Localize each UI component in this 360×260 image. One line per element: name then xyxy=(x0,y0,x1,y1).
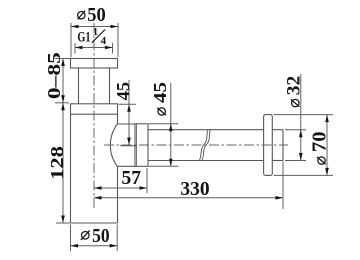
dim 0-85 line xyxy=(62,59,64,103)
svg-text:128: 128 xyxy=(47,146,67,180)
label d70 xyxy=(309,132,331,165)
centerlines xyxy=(94,23,288,210)
svg-text:330: 330 xyxy=(180,179,209,200)
vertical centerline xyxy=(93,23,95,210)
dim d50 top xyxy=(71,26,118,28)
dim 57 line xyxy=(94,187,147,189)
svg-text:45: 45 xyxy=(113,82,133,101)
label d50 bottom xyxy=(81,230,90,240)
d50 bottom arrows xyxy=(71,244,79,248)
dim G1 1/4 xyxy=(75,47,113,49)
horizontal pipe xyxy=(148,129,264,131)
svg-text:G1: G1 xyxy=(77,30,90,46)
pipe break squiggle xyxy=(199,130,208,161)
dim d70 line xyxy=(326,115,328,176)
d50 top arrows xyxy=(71,25,79,29)
pipe end cap xyxy=(282,130,284,161)
arrowheads xyxy=(61,25,329,248)
dim d50 bottom xyxy=(71,245,118,247)
svg-text:50: 50 xyxy=(92,226,110,247)
330 arrows xyxy=(94,196,102,200)
d70 arrows xyxy=(325,115,329,123)
wall flange xyxy=(264,115,273,176)
128 arrows xyxy=(61,103,65,111)
label d32 xyxy=(284,76,305,107)
neck tube xyxy=(78,68,80,104)
label d50 top xyxy=(78,11,85,20)
45 arrows xyxy=(127,104,131,112)
svg-text:4: 4 xyxy=(101,35,107,47)
cup body xyxy=(70,114,72,223)
d32 arrows xyxy=(299,130,303,138)
cup collar xyxy=(71,104,118,114)
d45 arrows xyxy=(169,124,173,132)
svg-text:50: 50 xyxy=(87,4,106,26)
svg-text:45: 45 xyxy=(150,82,170,103)
horizontal pipe centerline xyxy=(104,144,288,146)
dim d45 line xyxy=(170,83,172,166)
label 128 xyxy=(47,146,67,180)
G arrows xyxy=(75,46,83,50)
dim 330 line xyxy=(94,197,283,199)
svg-text:0–85: 0–85 xyxy=(44,52,64,99)
0-85 arrows xyxy=(61,59,65,67)
svg-text:32: 32 xyxy=(284,76,305,96)
dim d32 line xyxy=(300,74,302,161)
dim 128 line xyxy=(62,103,64,223)
label 0-85 xyxy=(44,52,64,99)
outlet tube band xyxy=(117,123,135,125)
outlet nut ring xyxy=(135,124,148,167)
svg-text:1: 1 xyxy=(93,27,98,38)
dim 45 line xyxy=(128,80,130,145)
svg-text:70: 70 xyxy=(309,132,331,153)
outlet intersection arc xyxy=(110,124,117,166)
svg-text:57: 57 xyxy=(122,168,142,189)
dimension/extension lines xyxy=(55,23,334,251)
top slip nut flange xyxy=(71,59,118,69)
57 arrows xyxy=(94,186,102,190)
label 45 xyxy=(113,82,133,101)
label d45 xyxy=(150,82,170,115)
